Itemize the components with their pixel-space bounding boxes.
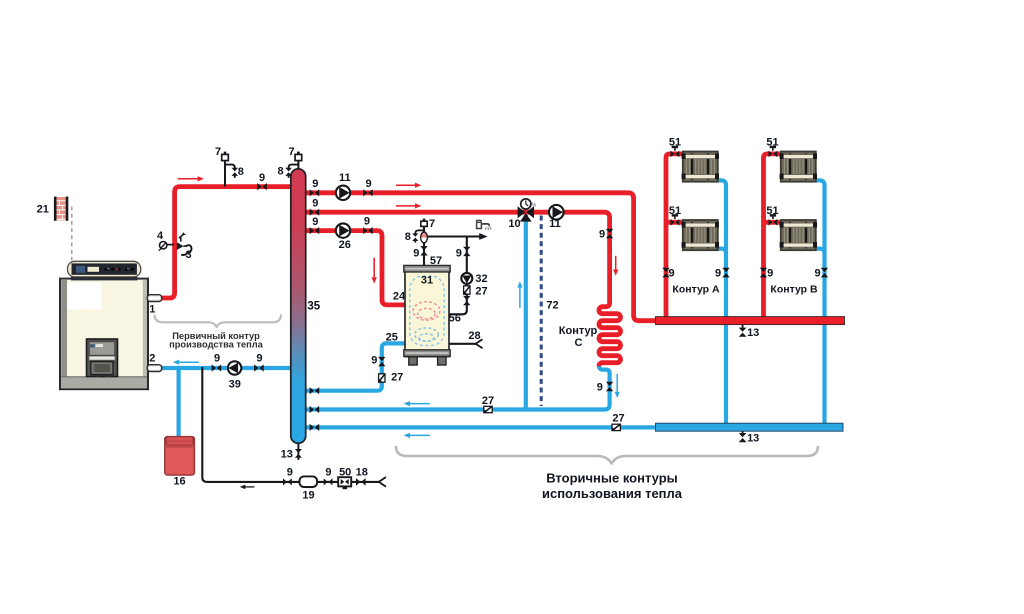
svg-text:9: 9 bbox=[256, 353, 262, 365]
radiator circuit B lower bbox=[781, 220, 816, 250]
wire boiler supply to separator bbox=[158, 187, 298, 298]
wire DHW recirculation drop bbox=[466, 237, 468, 274]
svg-text:С: С bbox=[575, 337, 583, 349]
svg-text:7: 7 bbox=[215, 146, 221, 158]
pressure reducer 50 bbox=[338, 477, 351, 486]
flow arrow line3 return bbox=[410, 434, 430, 436]
wire circuit A radiator 2 return bbox=[717, 249, 727, 254]
valve 9 makeup a bbox=[283, 478, 287, 485]
svg-text:27: 27 bbox=[475, 285, 487, 297]
svg-text:13: 13 bbox=[281, 448, 293, 460]
valve 9 circuit C supply bbox=[606, 229, 613, 233]
DHW tank 31 top cap bbox=[404, 265, 450, 272]
valve 9 blue line1 bbox=[310, 387, 314, 394]
wire DHW tank top stem 57 bbox=[423, 222, 425, 266]
valve 8 DHW bbox=[412, 233, 418, 236]
wire cold water inlet 28 bbox=[448, 343, 476, 345]
svg-text:9: 9 bbox=[715, 268, 721, 280]
svg-text:9: 9 bbox=[259, 172, 265, 184]
DHW tank lower coil dashed blue bbox=[415, 328, 439, 341]
svg-text:использования тепла: использования тепла bbox=[542, 486, 683, 501]
svg-text:7: 7 bbox=[289, 146, 295, 158]
wire circuit A supply riser bbox=[666, 154, 684, 318]
thermostatic valve 51 A2 bbox=[671, 219, 675, 226]
svg-text:57: 57 bbox=[430, 255, 442, 267]
DHW tank 31 bottom cap bbox=[404, 350, 450, 357]
pump 26 line 3 bbox=[336, 223, 350, 237]
svg-text:9: 9 bbox=[599, 228, 605, 240]
wire supply line 1 to manifold bbox=[298, 193, 660, 321]
svg-text:9: 9 bbox=[214, 353, 220, 365]
valve 9 line3 b bbox=[363, 227, 367, 234]
svg-text:11: 11 bbox=[339, 172, 351, 184]
boiler return stub 2 bbox=[147, 365, 162, 372]
air vent 7 stem bbox=[224, 160, 226, 187]
flow arrow line1 bbox=[396, 184, 415, 186]
flow arrow circuit C supply bbox=[615, 256, 617, 270]
svg-text:35: 35 bbox=[307, 300, 320, 312]
wire circuit A radiator 2 supply tee bbox=[666, 220, 684, 225]
svg-text:9: 9 bbox=[365, 178, 371, 190]
expansion vessel 8 DHW bbox=[421, 232, 428, 243]
svg-text:9: 9 bbox=[325, 466, 331, 478]
svg-text:13: 13 bbox=[747, 327, 759, 339]
svg-text:Контур: Контур bbox=[559, 325, 598, 337]
svg-text:9: 9 bbox=[371, 354, 377, 366]
safety valve group 3 bbox=[177, 242, 184, 250]
three-way mixing valve 10 bbox=[518, 206, 526, 218]
svg-text:1: 1 bbox=[149, 304, 155, 316]
svg-text:72: 72 bbox=[546, 299, 558, 311]
wire secondary return line 2 with circuit C return bbox=[298, 364, 610, 410]
valve 9 line1 b bbox=[363, 189, 367, 196]
svg-text:9: 9 bbox=[597, 381, 603, 393]
svg-text:27: 27 bbox=[612, 413, 624, 425]
boiler supply stub 1 bbox=[147, 295, 162, 302]
valve 9 riser A supply bbox=[662, 268, 669, 272]
wire make-up water line bbox=[202, 367, 379, 482]
valve 9 tank25 branch bbox=[378, 357, 385, 361]
svg-text:8: 8 bbox=[238, 166, 244, 178]
valve 9 circuit C return bbox=[606, 382, 613, 386]
chimney flue dashed line bbox=[71, 207, 73, 261]
svg-text:8: 8 bbox=[405, 231, 411, 243]
svg-text:16: 16 bbox=[173, 475, 185, 487]
valve 9 line2 bbox=[310, 209, 314, 216]
valve 9 supply line bbox=[257, 183, 261, 190]
svg-text:%: % bbox=[531, 203, 536, 209]
svg-text:25: 25 bbox=[386, 332, 398, 344]
svg-text:21: 21 bbox=[37, 203, 49, 215]
wire supply line 3 to DHW tank port 24 bbox=[298, 231, 406, 305]
svg-text:9: 9 bbox=[669, 268, 675, 280]
flow arrow tank drop bbox=[373, 258, 375, 277]
valve 8 elbow bbox=[289, 165, 299, 169]
svg-text:4: 4 bbox=[157, 230, 164, 242]
valve 9 makeup b bbox=[324, 478, 328, 485]
svg-text:9: 9 bbox=[767, 268, 773, 280]
return manifold bar bbox=[656, 423, 844, 431]
svg-text:26: 26 bbox=[339, 239, 351, 251]
svg-text:28: 28 bbox=[468, 330, 480, 342]
flow arrow line2 bbox=[396, 205, 415, 207]
wire supply line 2 to circuit C bbox=[298, 212, 610, 241]
circuit C heating coil bbox=[599, 240, 621, 366]
valve 9 riser B supply bbox=[760, 268, 767, 272]
check valve 27 line3 bbox=[612, 424, 620, 430]
air vent 7 body bbox=[222, 154, 229, 160]
pump 11 circuit C bbox=[549, 205, 564, 220]
svg-text:56: 56 bbox=[449, 313, 461, 325]
svg-text:9: 9 bbox=[287, 466, 293, 478]
thermostatic valve 51 B1 bbox=[769, 151, 773, 158]
DHW tank 31 legs bbox=[409, 356, 417, 365]
svg-text:13: 13 bbox=[747, 433, 759, 445]
DHW tank inner shell dashed bbox=[410, 276, 444, 346]
radiator circuit A upper bbox=[683, 152, 718, 182]
svg-text:24: 24 bbox=[393, 291, 406, 303]
DHW tank 31 body bbox=[405, 266, 449, 357]
cold water inlet break bbox=[476, 339, 483, 348]
svg-text:51: 51 bbox=[766, 205, 778, 217]
filter 19 bbox=[300, 476, 318, 487]
DHW outlet arrow bbox=[479, 233, 487, 240]
svg-text:10: 10 bbox=[508, 218, 520, 230]
wire secondary return line 3 bbox=[298, 425, 658, 429]
make-up line inlet break bbox=[379, 477, 386, 487]
flow arrow supply bbox=[178, 178, 198, 180]
svg-text:32: 32 bbox=[475, 273, 487, 285]
valve 13 separator drain bbox=[295, 449, 302, 453]
valve 9 recirculation bbox=[463, 296, 470, 300]
svg-text:Контур В: Контур В bbox=[770, 284, 818, 296]
check valve 27 line2 bbox=[484, 406, 492, 412]
pump 39 boiler return bbox=[228, 361, 241, 374]
burner bbox=[87, 339, 118, 377]
svg-text:27: 27 bbox=[391, 372, 403, 384]
valve 18 makeup bbox=[356, 478, 360, 486]
air vent 7 stem bbox=[297, 160, 299, 170]
valve 9 riser A return bbox=[722, 268, 729, 272]
svg-text:39: 39 bbox=[229, 378, 241, 390]
svg-text:2: 2 bbox=[149, 352, 155, 364]
svg-text:Контур А: Контур А bbox=[672, 284, 720, 296]
air vent 7 DHW tank bbox=[423, 223, 425, 230]
svg-text:9: 9 bbox=[312, 178, 318, 190]
svg-text:51: 51 bbox=[766, 137, 778, 149]
separator drain stub bbox=[297, 441, 299, 460]
valve 9 return b bbox=[254, 364, 258, 371]
svg-text:9: 9 bbox=[814, 268, 820, 280]
expansion tank 16 bbox=[165, 437, 195, 475]
svg-text:3: 3 bbox=[185, 249, 191, 261]
supply manifold bar bbox=[656, 317, 845, 325]
valve 9 riser B return bbox=[821, 268, 828, 272]
hydraulic separator 35 bbox=[291, 169, 306, 444]
pump 11 line 1 bbox=[336, 186, 350, 200]
wire boiler return line bbox=[158, 366, 298, 370]
radiator circuit A lower bbox=[683, 220, 718, 250]
flow arrow makeup bbox=[245, 486, 254, 488]
valve 9 under tank vent bbox=[420, 246, 427, 250]
valve 9 return a bbox=[212, 364, 216, 371]
wire DHW outlet line bbox=[424, 235, 480, 237]
chimney 21 bbox=[56, 197, 65, 220]
valve 9 DHW branch bbox=[463, 247, 470, 251]
svg-text:19: 19 bbox=[302, 490, 314, 502]
flow arrow mixing feed bbox=[519, 288, 521, 308]
DHW tank heating coil dashed red bbox=[413, 302, 440, 320]
flow arrow line2 return bbox=[410, 403, 430, 405]
valve 8 bbox=[232, 168, 239, 172]
wire mixing valve 10 feed bbox=[524, 215, 528, 412]
sensor line 72 dashed bbox=[540, 216, 543, 407]
wire circuit B radiator 2 supply tee bbox=[764, 220, 783, 225]
thermostatic valve 51 A1 bbox=[671, 151, 675, 158]
flow arrow circuit C return bbox=[616, 374, 618, 392]
svg-text:9: 9 bbox=[312, 216, 318, 228]
radiator circuit B upper bbox=[781, 152, 816, 182]
wire circuit B supply riser bbox=[764, 154, 783, 318]
thermostatic valve 51 B2 bbox=[769, 219, 773, 226]
svg-text:51: 51 bbox=[669, 137, 681, 149]
faucet icon bbox=[477, 220, 482, 222]
svg-text:9: 9 bbox=[364, 215, 370, 227]
wire circuit A radiator 1 return bbox=[717, 180, 727, 424]
boiler body bbox=[60, 279, 148, 390]
svg-text:9: 9 bbox=[413, 248, 419, 260]
svg-text:7: 7 bbox=[429, 218, 435, 230]
flow arrow boiler return bbox=[179, 361, 199, 363]
brace primary circuit bbox=[155, 315, 282, 328]
valve 8 elbow bbox=[225, 165, 235, 169]
svg-text:51: 51 bbox=[669, 205, 681, 217]
check valve 27 recirculation bbox=[464, 286, 470, 294]
valve 9 blue line3 bbox=[310, 424, 314, 431]
svg-text:9: 9 bbox=[312, 197, 318, 209]
brace secondary circuits bbox=[396, 446, 818, 464]
svg-text:31: 31 bbox=[421, 275, 433, 287]
wire recirculation into tank port 56 bbox=[448, 283, 467, 314]
wire separator to DHW tank port 25 bbox=[298, 343, 406, 390]
svg-text:8: 8 bbox=[278, 165, 284, 177]
valve 13 supply manifold bbox=[742, 325, 744, 328]
svg-text:производства тепла: производства тепла bbox=[169, 340, 264, 350]
valve 9 blue line2 bbox=[310, 406, 314, 413]
valve 8 bbox=[285, 168, 292, 172]
valve 8 DHW elbow bbox=[415, 230, 424, 233]
wire circuit B radiator 1 return bbox=[815, 180, 825, 424]
svg-text:9: 9 bbox=[456, 248, 462, 260]
svg-text:18: 18 bbox=[356, 466, 368, 478]
valve 9 line1 a bbox=[310, 189, 314, 196]
wire circuit B radiator 2 return bbox=[815, 249, 825, 254]
check valve 27 tank25 branch bbox=[379, 374, 385, 382]
thermometer 4 bbox=[167, 244, 175, 246]
wire expansion tank drop bbox=[177, 368, 181, 438]
valve 13 return manifold bbox=[742, 431, 744, 433]
svg-text:50: 50 bbox=[339, 466, 351, 478]
air vent 7 body bbox=[295, 154, 302, 160]
valve 9 line3 a bbox=[310, 227, 314, 234]
svg-text:27: 27 bbox=[482, 395, 494, 407]
boiler control panel bbox=[68, 261, 141, 277]
svg-text:Вторичные контуры: Вторичные контуры bbox=[546, 471, 678, 486]
pump 32 DHW recirculation bbox=[461, 273, 472, 284]
svg-text:11: 11 bbox=[549, 218, 561, 230]
